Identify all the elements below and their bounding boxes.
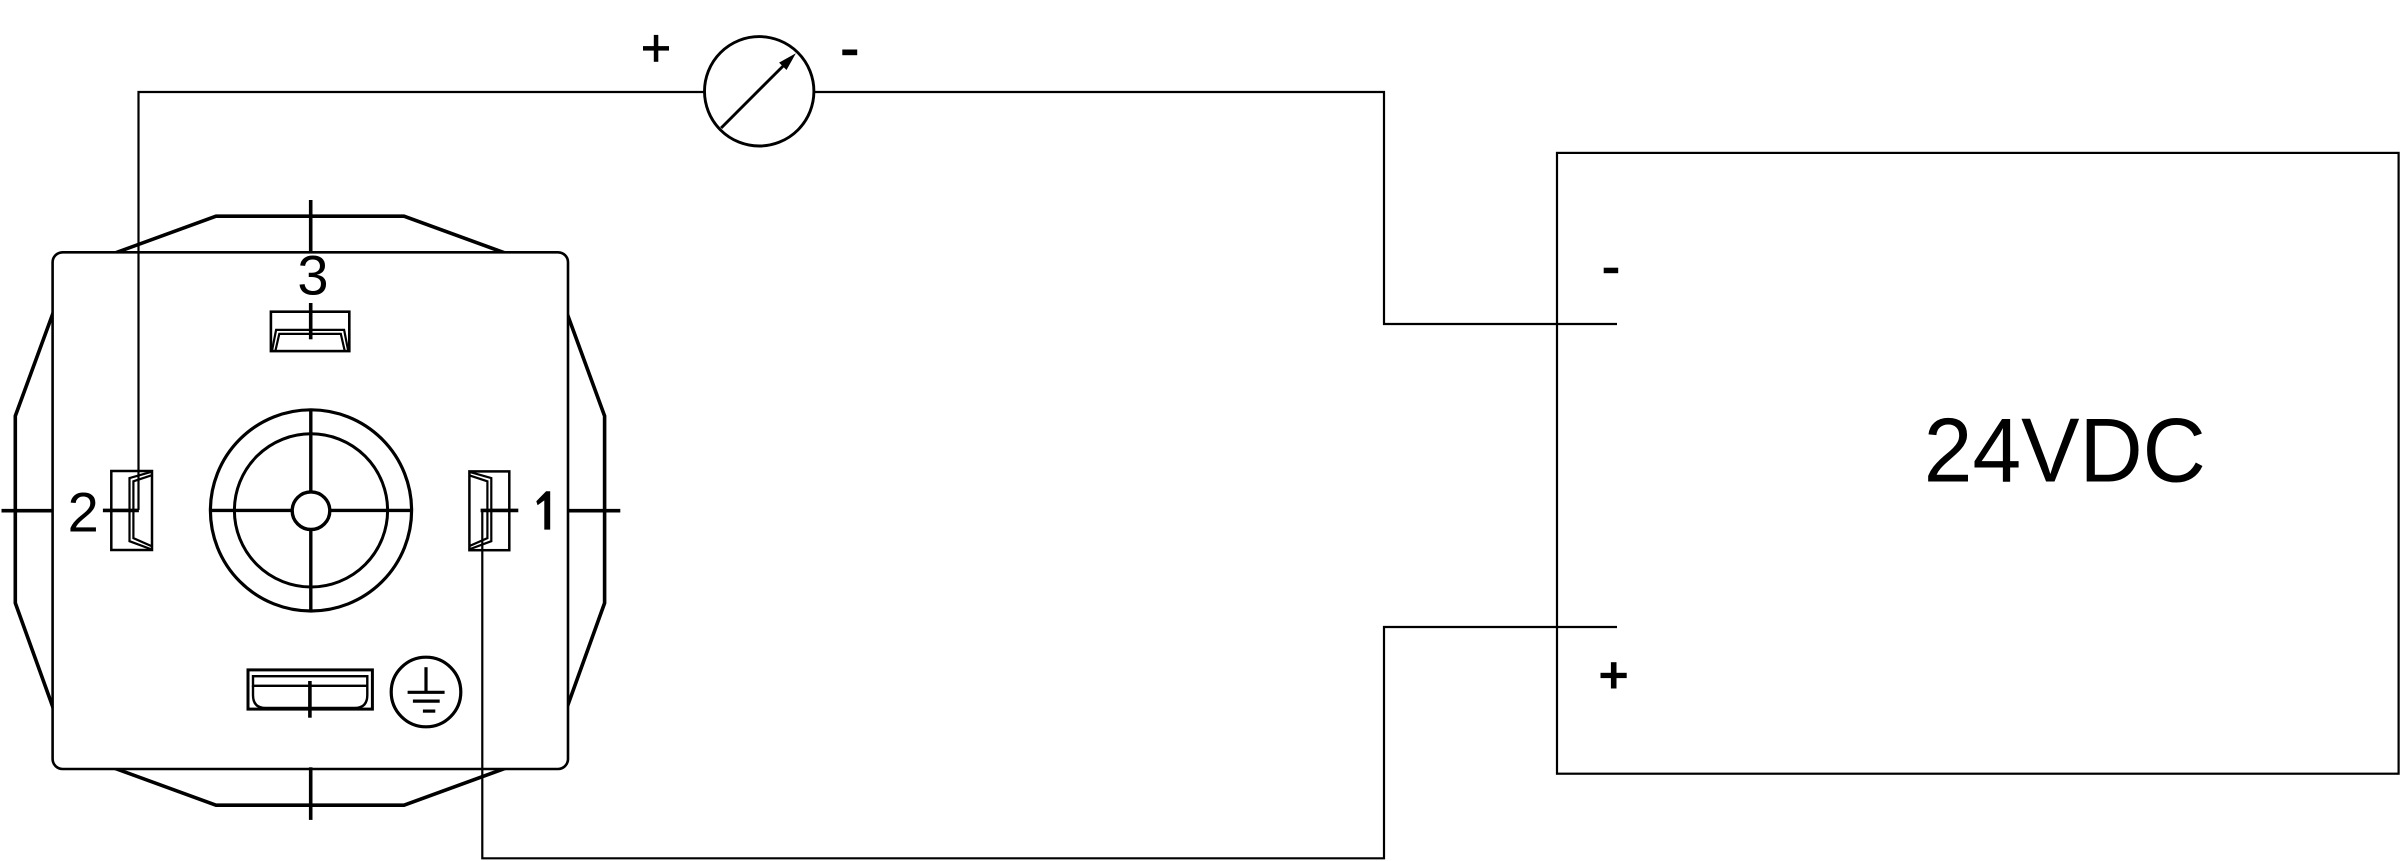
pin 2 contact slot inner — [133, 475, 151, 546]
pin 3 receptacle outline — [271, 312, 349, 351]
svg-text:2: 2 — [68, 481, 99, 544]
ammeter body circle — [705, 37, 814, 146]
bottom centerline tick — [309, 767, 313, 820]
cable slot centerline tick — [308, 681, 312, 718]
pin 2 centerline tick — [103, 509, 139, 513]
boss crosshair horizontal — [210, 509, 412, 512]
pin 3 contact slot inner — [275, 334, 344, 351]
ground symbol stem — [424, 667, 427, 692]
ammeter needle head — [779, 53, 796, 70]
pin 1 contact slot inner — [469, 475, 487, 546]
boss crosshair vertical — [309, 410, 312, 612]
meter label minus — [842, 50, 857, 56]
svg-text:3: 3 — [297, 244, 328, 307]
central boss outer circle — [210, 410, 411, 611]
pin 1 contact slot outer — [469, 472, 491, 550]
wire pin1 to plus terminal — [482, 510, 1617, 858]
central boss inner circle — [234, 434, 387, 587]
ground symbol bar 2 — [413, 699, 440, 702]
ground symbol bar 3 — [423, 709, 435, 712]
pin label 1 — [536, 491, 550, 529]
ground terminal circle — [391, 657, 461, 727]
pin 3 centerline tick — [309, 303, 313, 339]
left centerline tick — [2, 509, 54, 513]
ground symbol bar 1 — [408, 691, 445, 694]
wire pin2 to meter to minus terminal — [139, 92, 1618, 510]
svg-text:24VDC: 24VDC — [1924, 401, 2206, 502]
power supply box 24VDC — [1557, 153, 2399, 774]
pin 2 receptacle outline — [111, 471, 152, 550]
right centerline tick — [567, 509, 620, 513]
cable entry slot recess — [253, 686, 367, 708]
cable entry slot window — [253, 676, 367, 686]
connector X1 octagonal flange — [15, 216, 604, 805]
box terminal label minus — [1604, 268, 1619, 274]
meter label plus — [643, 35, 669, 62]
cable entry slot outer — [248, 670, 372, 709]
pin 3 contact slot outer — [272, 330, 348, 351]
ammeter needle shaft — [721, 65, 784, 128]
top centerline tick — [309, 200, 313, 254]
pin 1 centerline tick — [481, 509, 519, 513]
pin 1 receptacle outline — [469, 471, 509, 550]
pin 2 contact slot outer — [130, 472, 152, 550]
center hole circle — [292, 492, 330, 530]
connector X1 square body — [53, 252, 568, 769]
box terminal label plus — [1601, 662, 1627, 688]
